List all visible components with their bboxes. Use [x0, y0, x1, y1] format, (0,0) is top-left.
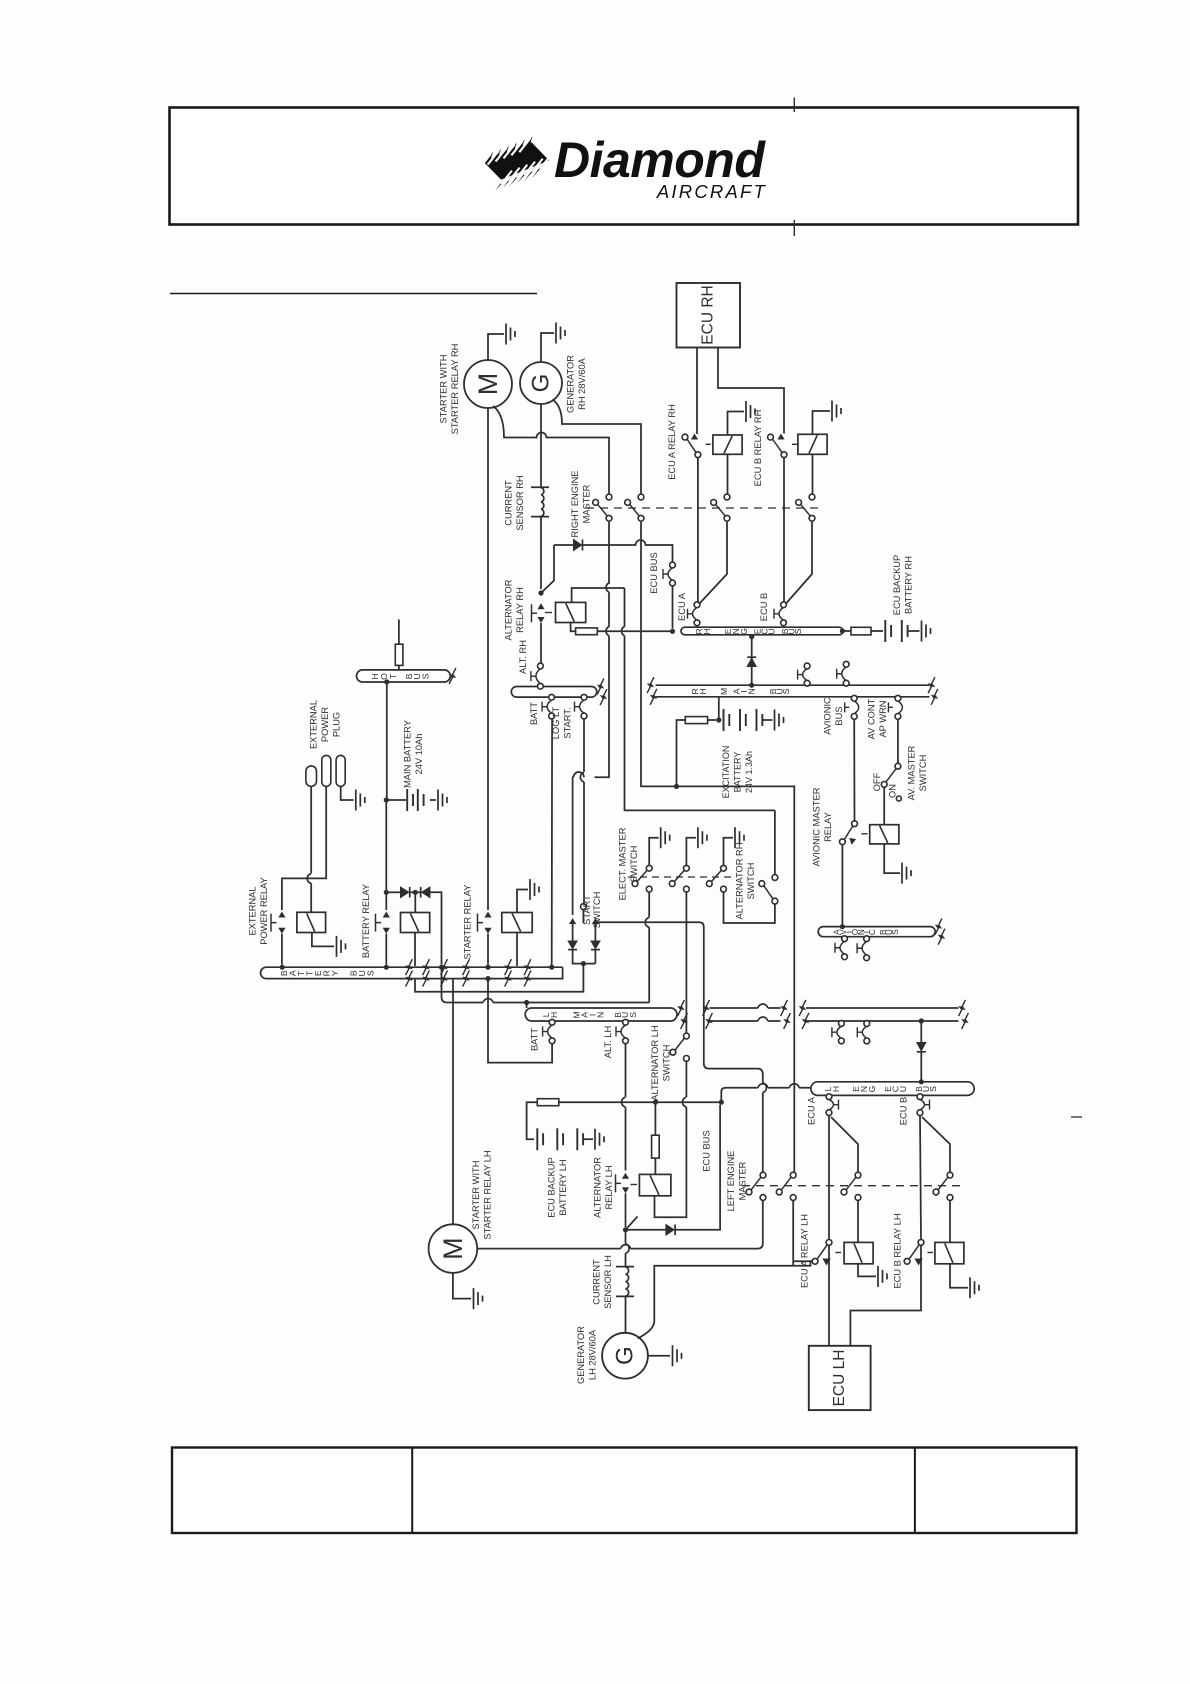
wire start switch right branch	[594, 924, 596, 941]
svg-text:OFF: OFF	[872, 772, 882, 791]
svg-text:EXTERNAL: EXTERNAL	[248, 886, 258, 935]
svg-text:M: M	[473, 373, 503, 396]
fuse ECU backup battery LH	[537, 1099, 559, 1106]
svg-text:M: M	[719, 688, 729, 695]
svg-text:24V 1.3Ah: 24V 1.3Ah	[744, 751, 754, 793]
wire LOG LT breaker to start switch upper	[583, 719, 585, 772]
battery ECU backup battery RH	[885, 620, 907, 642]
battery excitation battery	[724, 709, 763, 731]
node avionic bus feed	[840, 924, 845, 929]
svg-text:STARTER RELAY: STARTER RELAY	[463, 885, 473, 960]
ground ECU A relay RH	[746, 401, 755, 422]
relay coil battery relay	[401, 913, 430, 933]
resistor alternator relay RH	[571, 623, 576, 632]
relay contact ECU B relay LH	[918, 1240, 924, 1246]
wire start line to left engine master pole 1	[686, 922, 766, 1172]
relay coil ECU A relay LH	[844, 1242, 873, 1263]
wire ECU A coil to ground	[728, 412, 745, 436]
switch left engine master dashed link	[742, 1185, 962, 1187]
svg-text:24V 10Ah: 24V 10Ah	[414, 734, 424, 775]
svg-text:ECU B RELAY LH: ECU B RELAY LH	[893, 1213, 903, 1288]
switch alternator RH switch	[772, 875, 778, 881]
relay coil ECU A relay RH	[713, 435, 742, 454]
relay coil ECU B relay LH	[935, 1242, 964, 1263]
footer table outer	[172, 1448, 1077, 1534]
fold tick header bottom	[793, 220, 795, 236]
svg-text:SENSOR LH: SENSOR LH	[603, 1255, 613, 1309]
continuation mark LH main bus right bottom	[681, 1013, 688, 1029]
Diamond logo icon	[480, 136, 551, 191]
tap mark battery bus x444 bottom	[441, 971, 448, 987]
continuation mark RH main bus right bottom	[931, 689, 938, 705]
wire ALT LH breaker to alternator relay LH contact (hop)	[621, 1044, 625, 1171]
wire starter relay coil to battery bus	[516, 933, 518, 967]
svg-text:CURRENT: CURRENT	[504, 480, 514, 526]
breaker spare 1 on RH main bus	[803, 669, 808, 681]
diode start switch right	[591, 941, 600, 949]
wire left master pole4 to ECU B relay coil	[949, 1200, 951, 1242]
relay coil starter relay	[502, 913, 532, 933]
svg-text:ELECT. MASTER: ELECT. MASTER	[618, 827, 628, 900]
node starter relay on battery bus top	[485, 965, 490, 970]
svg-text:BATTERY RELAY: BATTERY RELAY	[361, 884, 371, 958]
fold tick top	[793, 98, 795, 113]
link ECU B relay RH	[792, 443, 797, 445]
battery ECU backup battery LH	[537, 1128, 583, 1150]
svg-text:BATTERY LH: BATTERY LH	[558, 1159, 568, 1215]
svg-text:POWER: POWER	[320, 707, 330, 742]
arrow avionic master relay	[850, 839, 855, 844]
ground elect master pole C	[735, 827, 744, 848]
wire G LH to ground	[648, 1355, 670, 1357]
breaker BATT LH	[548, 1025, 553, 1038]
wire LH ENG ECU bus feeder	[721, 1084, 811, 1103]
breaker ECU B LH	[920, 1099, 925, 1110]
svg-text:EXTERNAL: EXTERNAL	[309, 700, 319, 749]
continuation mark avionic bus right top	[935, 919, 942, 935]
node fuse line to resistor	[653, 1100, 658, 1105]
bus LH ENG ECU BUS	[811, 1082, 974, 1096]
svg-text:SENSOR RH: SENSOR RH	[515, 475, 525, 530]
breaker AVIONIC BUS	[854, 701, 859, 714]
switch left engine master pole 2	[790, 1172, 796, 1178]
generator G RH	[520, 362, 562, 404]
tap mark battery bus x527.5 top	[524, 959, 531, 975]
wire left master pole2 to ECU A contact	[793, 1260, 812, 1262]
svg-text:STARTER RELAY LH: STARTER RELAY LH	[483, 1150, 493, 1239]
svg-text:S: S	[793, 628, 803, 634]
svg-text:H: H	[702, 628, 712, 634]
svg-text:S: S	[928, 1086, 938, 1092]
svg-text:ECU B: ECU B	[759, 593, 769, 621]
link ECU A relay RH	[706, 443, 711, 445]
tap mark battery bus x527.5 bottom	[524, 971, 531, 987]
wire AV master switch to avionic master relay coil	[883, 787, 885, 824]
svg-text:ECU A: ECU A	[677, 592, 687, 621]
wire fuse line to LH ECU bus feeder	[655, 1101, 721, 1103]
continuation mark left bus right top	[597, 679, 604, 695]
relay avionic master relay	[852, 821, 858, 827]
node alternator relay LH common	[623, 1227, 628, 1232]
diode ECU bus to RH main bus	[749, 634, 754, 639]
node start switch diodes	[581, 961, 586, 966]
wire excitation fuse to ECU B feed	[677, 720, 686, 786]
arrow start switch left	[569, 918, 576, 924]
svg-text:SWITCH: SWITCH	[629, 846, 639, 883]
footer divider 1	[411, 1448, 413, 1534]
wire ECU B LH breaker diagonal to pole4	[922, 1117, 950, 1172]
breaker ECU BUS	[668, 568, 673, 581]
node RH ENG ECU bus left	[670, 629, 675, 634]
node excitation feed junction	[674, 784, 679, 789]
wire battery relay branch to LH main bus feed	[442, 967, 650, 1002]
wire ECU RH pin A down	[696, 348, 698, 435]
resistor alternator relay LH	[654, 1102, 656, 1135]
node battery relay diode branch	[384, 890, 389, 895]
svg-text:ALTERNATOR: ALTERNATOR	[593, 1157, 603, 1218]
svg-text:H: H	[831, 1086, 841, 1092]
ECU RH box	[677, 283, 741, 348]
relay coil external power relay	[297, 912, 326, 932]
svg-text:U: U	[898, 1086, 908, 1092]
svg-text:BATTERY RH: BATTERY RH	[904, 556, 914, 614]
wire resistor to ECU bus	[597, 630, 672, 632]
wire battery relay coil to battery bus	[414, 933, 416, 967]
wire M LH to ground	[453, 1273, 471, 1299]
current sensor RH coil and wire	[531, 404, 549, 589]
node excitation battery	[716, 717, 721, 722]
wire M RH to ground	[488, 334, 504, 360]
wire fuse to ECU backup battery LH	[527, 1102, 538, 1139]
header box	[170, 108, 1079, 225]
wire M LH to left engine master pole 1	[477, 1201, 763, 1249]
wire ECU BUS breaker to ECU bus	[672, 586, 674, 629]
svg-text:N: N	[747, 688, 757, 694]
wire ECU B coil to ground	[813, 411, 831, 434]
wire main battery to battery relay contact	[385, 802, 387, 910]
switch right engine master pole 3	[724, 494, 730, 500]
svg-text:S: S	[628, 1012, 638, 1018]
svg-text:U: U	[767, 628, 777, 634]
tap mark battery bus x466 bottom	[463, 971, 470, 987]
switch elect master pole C	[721, 865, 727, 871]
svg-text:ECU RH: ECU RH	[700, 285, 717, 344]
wire start switch line to elect master pole B	[595, 921, 686, 923]
svg-text:RELAY RH: RELAY RH	[515, 587, 525, 633]
svg-text:N: N	[596, 1012, 606, 1018]
wire alternator relay RH to ALT RH breaker	[540, 623, 542, 663]
link starter relay	[478, 914, 484, 932]
wire elect master pole C to alternator RH switch	[724, 892, 775, 923]
tap mark battery bus x409 top	[406, 959, 413, 975]
ground G LH	[673, 1345, 682, 1366]
ground excitation battery	[775, 710, 784, 731]
fold tick right edge	[1071, 1116, 1082, 1118]
diode start switch left	[568, 941, 577, 949]
switch elect master dashed link	[628, 876, 732, 878]
fuse ECU backup battery RH	[840, 628, 845, 633]
excitation battery branch	[718, 697, 720, 718]
svg-text:SWITCH: SWITCH	[918, 755, 928, 792]
switch start switch	[581, 904, 587, 910]
relay contact ECU B relay RH	[768, 434, 774, 440]
svg-text:S: S	[366, 970, 376, 976]
tap mark battery bus x466 top	[463, 959, 470, 975]
breaker LOG LT START	[580, 700, 585, 714]
wire avionic master relay to avionic bus	[841, 845, 843, 924]
ground elect master pole A	[661, 827, 670, 848]
generator G LH	[602, 1333, 648, 1379]
continuation mark RH main bus right top	[928, 677, 935, 693]
tap mark battery bus x426 bottom	[423, 971, 430, 987]
wire master pole1 to start switch branch (hops)	[573, 583, 609, 915]
ECU LH box	[809, 1346, 871, 1410]
wire master pole4 to ECU B breaker	[786, 521, 812, 603]
relay coil ECU B relay RH	[798, 434, 827, 454]
relay coil alternator relay LH	[639, 1174, 671, 1195]
svg-text:GENERATOR: GENERATOR	[566, 355, 576, 413]
wire plug pin2 to ext power relay contact	[282, 786, 326, 910]
node diode on LH ENG ECU bus	[919, 1079, 924, 1084]
tap mark battery bus x508 top	[505, 959, 512, 975]
breaker ALT RH	[536, 669, 541, 684]
blade start switch	[582, 910, 584, 924]
wire G LH to left engine master pole 2 branch	[638, 1261, 813, 1338]
switch right engine master dashed link	[586, 507, 822, 509]
ground M LH	[474, 1288, 483, 1309]
breaker spare 2 on RH main bus	[842, 667, 847, 681]
breaker AV CONT AP WRN	[898, 701, 903, 714]
svg-text:MASTER: MASTER	[582, 484, 592, 523]
relay coil avionic master relay	[870, 825, 899, 844]
node ext power relay on battery bus	[280, 965, 285, 970]
svg-text:GENERATOR: GENERATOR	[576, 1326, 586, 1384]
diode alternator relay LH output	[626, 1229, 666, 1231]
wire master pole3 to ECU A breaker	[700, 521, 728, 603]
link external power relay	[271, 914, 277, 932]
alternator relay RH contact	[538, 590, 543, 595]
svg-text:AV. MASTER: AV. MASTER	[907, 745, 917, 800]
breaker ECU B RH	[779, 607, 784, 620]
bus AVIONIC BUS	[818, 927, 935, 937]
ground ECU A relay LH	[878, 1266, 887, 1287]
wire avionic bus breaker to avionic master relay	[853, 719, 855, 821]
switch alternator LH switch	[684, 1033, 690, 1039]
svg-text:SWITCH: SWITCH	[746, 863, 756, 900]
link alternator relay RH	[532, 604, 538, 622]
wire M RH to right engine master pole 1 (hop over sensor wire)	[493, 406, 609, 494]
svg-text:T: T	[388, 673, 398, 679]
svg-text:ECU BUS: ECU BUS	[649, 552, 659, 593]
blade alternator relay RH	[541, 545, 554, 593]
node starter relay on battery bus bottom	[485, 976, 490, 981]
wire ECU B relay RH to ECU B breaker	[783, 458, 785, 603]
wire LH main bus left feed stub	[524, 1000, 529, 1005]
wire elect master pole B down to alternator LH switch	[685, 892, 687, 1033]
svg-text:G: G	[739, 628, 749, 635]
wire starter relay coil to ground	[517, 890, 528, 913]
wire plug pin3 to ground	[341, 786, 354, 800]
wire elect master pole A down to LH main bus feed (hop)	[645, 892, 649, 1003]
svg-text:EXCITATION: EXCITATION	[721, 746, 731, 799]
svg-text:BATT: BATT	[530, 1028, 540, 1051]
diode alternator relay RH output	[554, 540, 673, 562]
continuation mark hot bus right	[449, 668, 456, 684]
bus RH ENG ECU BUS	[681, 627, 843, 635]
svg-text:MASTER: MASTER	[738, 1161, 748, 1200]
relay contact ECU A relay RH	[682, 434, 688, 440]
wire left master pole2 to G line	[792, 1200, 794, 1265]
switch left engine master pole 1	[760, 1172, 766, 1178]
svg-text:STARTER WITH: STARTER WITH	[439, 355, 449, 424]
alternator relay LH contact	[622, 1173, 629, 1179]
breaker ALT LH	[621, 1025, 626, 1038]
ground external power plug	[356, 790, 365, 811]
svg-text:ECU A: ECU A	[807, 1096, 817, 1125]
fuse excitation battery	[685, 717, 707, 724]
ground elect master pole B	[698, 827, 707, 848]
wire LOG LT to start switch (hop)	[580, 772, 584, 903]
svg-text:ECU A RELAY LH: ECU A RELAY LH	[800, 1214, 810, 1288]
main battery	[384, 797, 389, 802]
wire ECU B feed down to left engine master pole 2	[677, 786, 795, 1172]
relay contact external power relay	[278, 912, 285, 918]
switch right engine master pole 1	[606, 494, 612, 500]
svg-text:BATT: BATT	[529, 702, 539, 725]
wire ECU B LH breaker down through contact	[920, 1116, 921, 1240]
wire battery relay coil top	[414, 892, 416, 912]
breaker LH pair spare 2	[862, 1026, 867, 1038]
bus HOT BUS	[357, 670, 451, 682]
link battery relay	[376, 914, 382, 932]
switch elect master pole B	[684, 865, 690, 871]
diode wire pair to LH ENG ECU bus	[919, 1018, 924, 1023]
continuation mark RH main bus left top	[647, 677, 654, 693]
svg-text:LOG LT: LOG LT	[551, 706, 561, 739]
continuation mark left bus right bottom	[600, 689, 607, 705]
fuse above hot bus	[398, 619, 400, 644]
link ECU B relay LH	[928, 1252, 934, 1254]
wire hot bus to main battery	[386, 682, 388, 798]
bus BATTERY BUS	[261, 967, 563, 978]
svg-text:Y: Y	[330, 970, 340, 976]
wire ECU B coil to master pole 4	[812, 454, 814, 494]
bus left main bus RH	[511, 687, 597, 698]
svg-text:AVIONIC MASTER: AVIONIC MASTER	[812, 787, 822, 866]
wire start switch to battery bus	[415, 964, 583, 992]
node ON position	[896, 796, 901, 801]
svg-text:H: H	[549, 1012, 559, 1018]
ground ECU B relay RH	[832, 401, 841, 422]
wire battery bus to BATT LH breaker	[488, 979, 552, 1063]
bus LH MAIN BUS	[525, 1008, 677, 1021]
svg-text:ALT. LH: ALT. LH	[603, 1026, 613, 1058]
breaker LH pair spare 1	[837, 1026, 842, 1038]
wire ECU RH pin B down	[718, 348, 784, 434]
continuation mark RH main bus left bottom	[650, 689, 657, 705]
svg-text:START: START	[582, 895, 592, 925]
svg-text:G: G	[528, 374, 555, 393]
svg-text:ECU B: ECU B	[899, 1097, 909, 1125]
wire diode line to LH ECU bus feeder	[675, 1105, 720, 1230]
svg-text:SWITCH: SWITCH	[662, 1045, 672, 1082]
ground external power relay	[337, 936, 346, 957]
footer divider 2	[914, 1448, 916, 1534]
svg-text:RIGHT ENGINE: RIGHT ENGINE	[570, 471, 580, 538]
tap mark battery bus x444 top	[441, 959, 448, 975]
svg-text:ECU BACKUP: ECU BACKUP	[547, 1157, 557, 1217]
wire battery bus to starter M LH	[452, 979, 454, 1225]
continuation mark avionic bus right bottom	[938, 929, 945, 945]
svg-text:G: G	[612, 1346, 639, 1365]
svg-text:POWER RELAY: POWER RELAY	[259, 877, 269, 945]
relay contact ECU A relay LH	[826, 1240, 832, 1246]
svg-text:M: M	[438, 1237, 468, 1260]
blade alternator relay LH	[626, 1217, 638, 1230]
switch left engine master pole 4	[947, 1172, 953, 1178]
wire ECU A LH coil to ground	[858, 1264, 876, 1277]
breaker avionic spare 1	[840, 941, 845, 954]
switch right engine master pole 2	[638, 494, 644, 500]
wire pair segment A	[710, 1004, 781, 1021]
svg-text:AVIONIC: AVIONIC	[823, 697, 833, 735]
node hot bus to battery	[384, 679, 389, 684]
switch right engine master pole 4	[809, 494, 815, 500]
svg-text:LEFT ENGINE: LEFT ENGINE	[726, 1151, 736, 1212]
svg-text:ECU BACKUP: ECU BACKUP	[892, 555, 902, 615]
svg-text:H: H	[698, 688, 708, 694]
wire avionic master coil to ground	[884, 844, 900, 873]
svg-text:LH 28V/60A: LH 28V/60A	[588, 1329, 598, 1380]
node BATT RH feeder on battery bus	[549, 965, 554, 970]
svg-text:S: S	[891, 929, 900, 935]
ground ECU backup battery LH	[595, 1129, 604, 1150]
node fuse line right end	[719, 1100, 724, 1105]
svg-text:ALTERNATOR RH: ALTERNATOR RH	[735, 843, 745, 920]
svg-text:START.: START.	[563, 707, 573, 738]
motor M starter LH	[429, 1224, 478, 1273]
svg-text:RELAY: RELAY	[823, 812, 833, 842]
svg-text:AIRCRAFT: AIRCRAFT	[656, 181, 767, 202]
external power plug pins	[306, 766, 317, 787]
ground main battery	[438, 790, 447, 811]
switch left engine master pole 3	[855, 1172, 861, 1178]
wire starter M RH down to starter relay contact	[487, 408, 489, 910]
wire ECU A LH breaker down through contact	[828, 1116, 830, 1240]
wire plug pin1 to ext power relay coil (hop)	[307, 786, 311, 912]
svg-text:ALT. RH: ALT. RH	[518, 640, 528, 674]
svg-text:ON: ON	[888, 784, 898, 798]
svg-text:RELAY LH: RELAY LH	[604, 1165, 614, 1209]
link ECU A relay LH	[836, 1252, 842, 1254]
relay coil alternator relay RH	[556, 602, 586, 622]
wire G RH to ground	[541, 333, 554, 362]
svg-text:S: S	[781, 688, 791, 694]
svg-text:G: G	[867, 1085, 877, 1092]
link alternator relay RH coil	[545, 612, 552, 614]
wire master pole1 down upper	[608, 521, 610, 584]
svg-text:ECU LH: ECU LH	[831, 1350, 848, 1407]
wire battery bus to BATT breaker RH	[551, 719, 553, 967]
wire pair segment B	[806, 1008, 959, 1021]
ground ECU B relay LH	[970, 1277, 979, 1298]
relay contact battery relay	[383, 912, 390, 918]
svg-text:AP WRN: AP WRN	[878, 700, 888, 737]
svg-text:ALTERNATOR LH: ALTERNATOR LH	[650, 1025, 660, 1100]
svg-text:Diamond: Diamond	[554, 132, 766, 188]
current sensor LH coil	[616, 1267, 634, 1333]
wire alternator relay RH coil top feed	[572, 588, 625, 602]
